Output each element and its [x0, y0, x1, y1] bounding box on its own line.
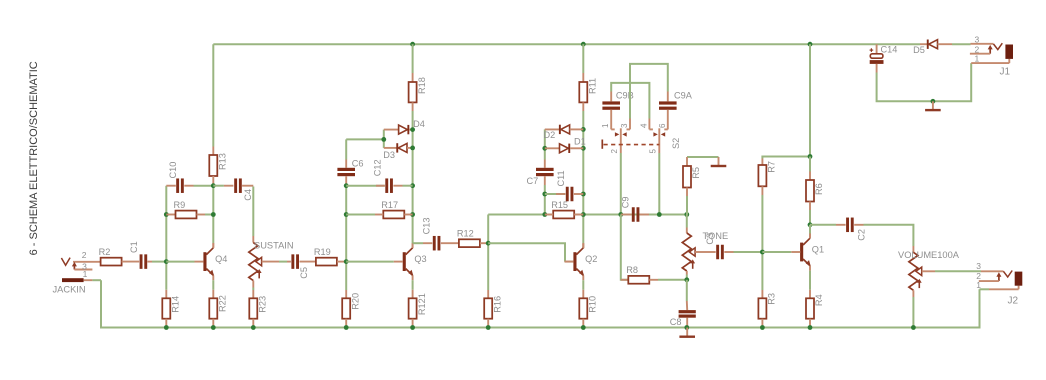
svg-text:R19: R19: [314, 247, 331, 257]
transistor Q1: [791, 233, 824, 270]
wire C14 to ground row: [876, 64, 878, 73]
node R3 ground: [760, 325, 765, 330]
wire C9B top bridge: [611, 83, 649, 119]
svg-text:C1: C1: [129, 241, 139, 253]
diode D3: [383, 143, 412, 160]
node C8 ground rail junction: [684, 325, 689, 330]
wire Q2 emitter to R10: [582, 280, 584, 290]
svg-text:3: 3: [974, 35, 979, 45]
node R121 ground: [410, 325, 415, 330]
potentiometer TONE wires: [686, 215, 688, 228]
potentiometer TONE: [682, 233, 695, 271]
svg-text:3: 3: [620, 123, 629, 128]
resistor R4: [806, 298, 814, 318]
resistor R5: [687, 156, 719, 158]
resistor R22: [209, 298, 217, 318]
node R15 left junction: [542, 212, 547, 217]
wire C5 to R19: [300, 261, 317, 263]
wire VOLUME bottom to rail: [912, 290, 914, 297]
svg-text:Q3: Q3: [414, 254, 426, 264]
transistor Q2: [565, 243, 598, 280]
svg-text:R10: R10: [588, 296, 598, 313]
svg-text:R23: R23: [258, 296, 268, 313]
capacitor C1: [140, 254, 143, 269]
node R13 bottom junction: [211, 183, 216, 188]
svg-text:JACKIN: JACKIN: [53, 285, 86, 295]
wire TONE bottom to C8: [686, 280, 688, 301]
capacitor C12: [385, 178, 388, 193]
wire Q3 collector column x412: [412, 44, 414, 73]
wire Q3 base column x346: [345, 139, 347, 159]
wire R2 to C1: [122, 261, 140, 263]
diode D2: [544, 125, 584, 140]
svg-text:R14: R14: [171, 296, 181, 313]
capacitor C13: [433, 236, 436, 251]
svg-text:5: 5: [648, 149, 657, 154]
svg-text:C9: C9: [620, 196, 630, 208]
capacitor C14: [876, 44, 878, 54]
svg-text:S2: S2: [671, 138, 681, 149]
wire R11 column x583: [582, 44, 584, 73]
svg-text:D1: D1: [574, 137, 586, 147]
resistor R17: [383, 211, 404, 219]
wire C10 leads: [166, 185, 176, 187]
node R16 ground: [486, 325, 491, 330]
resistor R9: [166, 214, 175, 216]
resistor R10: [579, 298, 587, 318]
svg-text:3: 3: [976, 261, 981, 271]
node D3 right junction: [410, 146, 415, 151]
node C12 right junction: [410, 183, 415, 188]
ground: [679, 328, 695, 337]
resistor R15: [553, 211, 574, 219]
svg-text:R22: R22: [218, 295, 228, 312]
node D1 left junction: [542, 146, 547, 151]
svg-text:D2: D2: [544, 130, 556, 140]
svg-text:1: 1: [601, 123, 610, 128]
transistor Q3: [346, 261, 394, 263]
node R6 top junction: [808, 154, 813, 159]
svg-text:R9: R9: [174, 200, 186, 210]
node R17 left junction: [344, 212, 349, 217]
wire mid horizontal rail y214: [488, 214, 687, 216]
svg-text:Q2: Q2: [585, 254, 597, 264]
resistor R2: [101, 258, 122, 266]
svg-text:R3: R3: [767, 293, 777, 305]
svg-text:C5: C5: [299, 267, 309, 279]
capacitor C10: [176, 178, 179, 193]
switch S2: [601, 110, 681, 154]
wire Q1 bias column x762: [762, 157, 810, 159]
resistor R18: [409, 82, 417, 102]
svg-text:D5: D5: [913, 45, 925, 55]
capacitor C7: [536, 168, 554, 171]
node C11 left junction: [542, 192, 547, 197]
svg-text:C11: C11: [556, 170, 566, 186]
potentiometer VOLUME100A: [909, 252, 922, 290]
svg-text:C12: C12: [373, 159, 383, 176]
wire R8 drop x620: [621, 215, 629, 280]
svg-text:SUSTAIN: SUSTAIN: [254, 241, 294, 251]
svg-text:D3: D3: [383, 150, 395, 160]
svg-text:6 - SCHEMA ELETTRICO/SCHEMATIC: 6 - SCHEMA ELETTRICO/SCHEMATIC: [28, 61, 40, 255]
resistor R19: [316, 258, 337, 266]
svg-text:R7: R7: [767, 161, 777, 173]
wire VOLUME wiper to J2: [922, 270, 935, 272]
svg-text:D4: D4: [413, 119, 425, 129]
node ground row junction: [931, 99, 936, 104]
svg-text:C10: C10: [168, 162, 178, 179]
connector J1: [970, 35, 1013, 78]
svg-text:1: 1: [974, 54, 979, 64]
svg-text:2: 2: [82, 250, 87, 260]
svg-text:R2: R2: [99, 247, 111, 257]
svg-text:C4: C4: [243, 189, 253, 201]
ground: [711, 157, 727, 166]
svg-text:C13: C13: [422, 218, 432, 235]
diode D5: [913, 40, 970, 56]
resistor R6: [806, 180, 814, 202]
node C12 left junction: [344, 183, 349, 188]
node R22 ground: [211, 325, 216, 330]
node R19/Q3 base junction: [344, 259, 349, 264]
diode D1: [545, 137, 586, 154]
node C1/Q4 base junction: [164, 259, 169, 264]
wire bias column x166: [165, 186, 167, 290]
wire Q3 emitter to R121: [412, 280, 414, 290]
wire bottom ground rail: [101, 280, 980, 327]
wire C5 left pin: [287, 261, 291, 263]
svg-text:R16: R16: [492, 296, 502, 313]
resistor R121: [409, 298, 417, 318]
wire top rail left drop to R13: [212, 44, 214, 146]
svg-text:C9B: C9B: [616, 91, 634, 101]
svg-text:R20: R20: [350, 293, 360, 310]
wire TONE wiper to C3: [695, 251, 704, 253]
capacitor C11: [566, 187, 569, 202]
svg-text:R4: R4: [814, 294, 824, 306]
capacitor C6: [337, 168, 355, 171]
ground: [925, 101, 941, 110]
svg-text:R13: R13: [218, 153, 228, 170]
node R9 right junction: [211, 212, 216, 217]
svg-text:4: 4: [639, 123, 648, 128]
node top rail junction at R18: [410, 42, 415, 47]
node R9 left junction: [164, 212, 169, 217]
diode D4: [384, 119, 425, 134]
capacitor C9: [632, 207, 635, 222]
resistor R23: [249, 298, 257, 318]
wire SUSTAIN bottom to R23: [252, 281, 254, 288]
connector JACKIN: [53, 250, 102, 295]
connector J2: [976, 261, 1022, 306]
resistor R14: [162, 298, 170, 318]
wire Q1 collector column x810: [809, 44, 811, 156]
resistor R5: [683, 166, 691, 188]
svg-text:C6: C6: [352, 159, 364, 169]
capacitor C9A: [659, 101, 677, 104]
node R15 right junction: [581, 212, 586, 217]
node top rail junction at R11: [581, 42, 586, 47]
resistor R20: [342, 298, 350, 318]
wire Q3 collector to C13: [413, 242, 423, 244]
svg-text:C14: C14: [881, 45, 898, 55]
svg-text:Q4: Q4: [215, 254, 227, 264]
wire Q4 collector column: [212, 147, 214, 156]
wire SUSTAIN wiper to C5: [262, 261, 279, 263]
wire Q2 base jog: [488, 243, 565, 261]
svg-text:R11: R11: [588, 78, 598, 94]
svg-text:1: 1: [83, 269, 88, 279]
capacitor C8: [679, 310, 696, 313]
node R14 ground: [164, 325, 169, 330]
wire switch commons to mid rail: [620, 153, 622, 215]
wire Q4 emitter to R22: [212, 280, 214, 290]
node pin2 junction: [618, 212, 623, 217]
svg-text:R12: R12: [457, 229, 474, 239]
svg-text:C7: C7: [527, 176, 539, 186]
svg-text:1: 1: [976, 280, 981, 290]
node R17 right junction: [410, 212, 415, 217]
node D branch junction: [381, 137, 386, 142]
capacitor C9B: [602, 101, 620, 104]
resistor R13: [209, 155, 217, 176]
svg-text:R18: R18: [417, 77, 427, 94]
transistor Q3: [394, 243, 427, 280]
potentiometer SUSTAIN: [249, 243, 262, 281]
node D1 right junction: [581, 146, 586, 151]
resistor R12: [459, 239, 480, 247]
wire C1 to node: [147, 261, 152, 263]
node R8 right junction: [684, 277, 689, 282]
node Q1 base junction: [760, 250, 765, 255]
node R6 bottom junction: [808, 222, 813, 227]
svg-text:2: 2: [610, 149, 619, 154]
svg-text:C8: C8: [670, 317, 682, 327]
transistor Q4: [195, 243, 228, 280]
node VOLUME ground: [911, 325, 916, 330]
svg-text:J2: J2: [1008, 296, 1019, 307]
svg-text:Q1: Q1: [812, 245, 824, 255]
svg-text:6: 6: [658, 123, 667, 128]
wire D3 D4 branch: [346, 138, 384, 140]
resistor R16: [484, 298, 492, 318]
wire C4 to SUSTAIN top: [252, 187, 254, 237]
capacitor C3: [716, 245, 719, 260]
svg-text:J1: J1: [1000, 66, 1011, 77]
capacitor C5: [291, 254, 294, 269]
resistor R3: [758, 298, 766, 318]
svg-text:C9A: C9A: [674, 91, 693, 101]
svg-text:R8: R8: [626, 265, 638, 275]
node top rail junction at Q1 column: [808, 42, 813, 47]
resistor R11: [579, 82, 587, 102]
svg-text:R15: R15: [551, 200, 568, 210]
wire C9A top bridge: [630, 64, 668, 119]
resistor R7: [758, 165, 766, 186]
svg-text:VOLUME100A: VOLUME100A: [898, 250, 960, 260]
node pin5 junction: [657, 212, 662, 217]
resistor R9: [176, 211, 197, 219]
svg-text:R6: R6: [814, 183, 824, 195]
node R12 right junction: [486, 241, 491, 246]
node C11 right junction: [581, 192, 586, 197]
svg-text:R121: R121: [417, 293, 427, 315]
node R10 ground: [581, 325, 586, 330]
capacitor C2: [846, 218, 849, 233]
svg-text:R17: R17: [381, 200, 398, 210]
svg-text:R5: R5: [691, 167, 701, 179]
node R20 ground: [344, 325, 349, 330]
node R23 ground: [251, 325, 256, 330]
svg-text:C3: C3: [705, 233, 715, 245]
capacitor C4: [234, 178, 237, 193]
svg-text:C2: C2: [857, 229, 867, 241]
wire C2 to VOLUME: [864, 225, 914, 246]
resistor R8: [628, 276, 649, 284]
node R5/TONE junction: [684, 212, 689, 217]
wire R12 node column x488: [487, 215, 489, 291]
wire top supply rail: [213, 43, 920, 45]
wire Q1 emitter to R4: [809, 271, 811, 290]
node D4 right junction: [410, 127, 415, 132]
node R4 ground: [808, 325, 813, 330]
wire D2 D1 left column x545: [544, 129, 546, 159]
capacitor C2: [810, 224, 836, 226]
node D2 right junction: [581, 127, 586, 132]
